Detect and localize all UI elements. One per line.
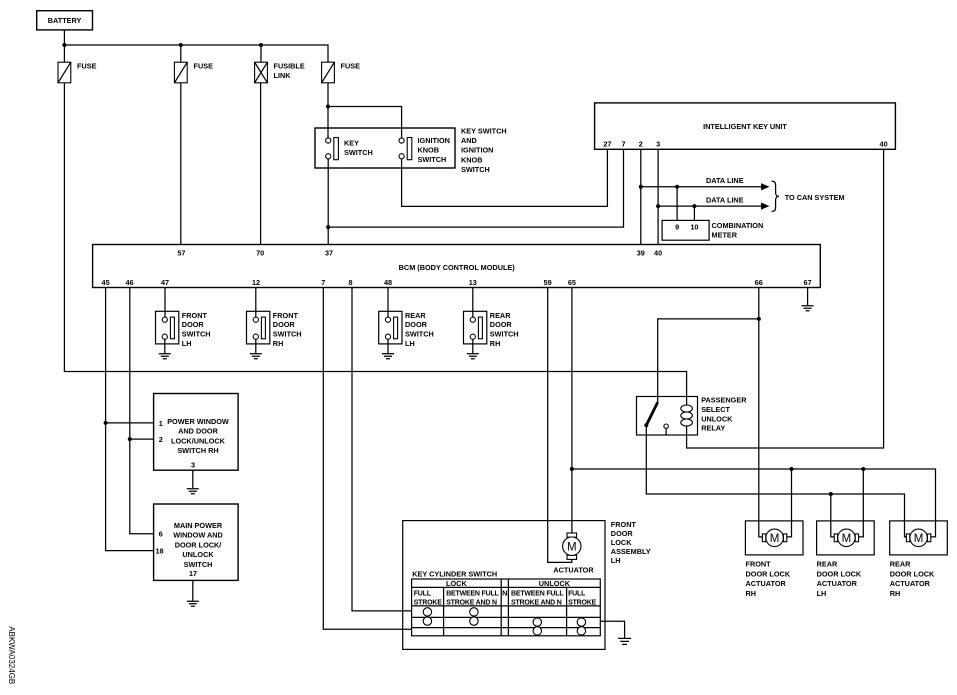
svg-text:POWER WINDOW: POWER WINDOW [167,417,229,426]
wire feed down front RH [787,469,792,537]
svg-text:ACTUATOR: ACTUATOR [817,579,858,588]
svg-text:13: 13 [469,278,477,287]
svg-text:M: M [914,533,924,545]
svg-text:DATA LINE: DATA LINE [706,196,744,205]
svg-text:KNOB: KNOB [461,155,483,164]
svg-text:PASSENGER: PASSENGER [701,396,747,405]
label front door lock actuator RH [746,560,791,598]
BCM (body control module) U2 [93,245,821,288]
junction bus-fuse1 [62,43,66,47]
svg-text:STROKE AND N: STROKE AND N [511,599,562,606]
svg-text:DOOR LOCK/: DOOR LOCK/ [175,540,222,549]
svg-text:FUSE: FUSE [194,62,214,71]
svg-text:UNLOCK: UNLOCK [701,414,733,423]
wire BCM 59 to actuator [548,288,572,563]
ground rear door switch RH [467,354,479,359]
junction meter10-dataline2 [692,204,696,208]
rear door switch LH [379,311,434,348]
junction pin3-dataline2 [656,204,660,208]
label rear door lock actuator RH [890,560,935,598]
svg-text:RH: RH [273,339,284,348]
junction bus-fusible-link [259,43,263,47]
svg-text:66: 66 [755,278,763,287]
fuse F2 [174,62,213,83]
svg-text:DATA LINE: DATA LINE [706,176,744,185]
svg-text:3: 3 [656,140,660,149]
wire meter pin 10 [693,206,695,220]
svg-text:DOOR LOCK: DOOR LOCK [890,569,935,578]
wire BCM 66 to relay and front actuator [759,288,763,537]
svg-text:MAIN POWER: MAIN POWER [174,521,223,530]
wire branch rear LH [831,494,834,537]
fuse F4 [322,62,360,83]
svg-text:RELAY: RELAY [701,424,725,433]
svg-text:STROKE AND N: STROKE AND N [446,599,497,606]
wire ignition knob to IKU pin 27 [402,149,608,206]
passenger select unlock relay [637,397,698,436]
wire branch to pin2 [130,438,154,440]
wire branch to relay [658,319,759,402]
wire IKU pin 40 to relay coil [687,149,884,448]
svg-text:70: 70 [256,249,264,258]
svg-text:LH: LH [182,339,192,348]
svg-text:SWITCH: SWITCH [344,148,373,157]
contact unlock between full stroke [533,618,541,626]
svg-text:40: 40 [654,249,662,258]
svg-text:REAR: REAR [405,311,426,320]
svg-text:REAR: REAR [817,560,838,569]
wire BCM 13 to rear door switch RH [472,288,474,318]
wire BCM 8 to key cylinder switch [352,288,412,611]
wire BCM 45 to switches [106,288,154,551]
svg-text:39: 39 [637,249,645,258]
relay switch arm [646,402,657,425]
wire branch to pin1 [106,422,154,424]
key switch box [315,128,455,168]
label front door lock assembly LH [611,520,651,565]
wire pin3 to ground [192,470,194,488]
svg-text:59: 59 [544,278,552,287]
svg-text:UNLOCK: UNLOCK [539,579,571,588]
svg-text:KEY SWITCH: KEY SWITCH [461,127,507,136]
wire bus to fusible link [260,45,262,62]
svg-text:48: 48 [384,278,392,287]
svg-text:REAR: REAR [490,311,511,320]
data line 2 [658,205,762,207]
svg-text:18: 18 [155,547,163,556]
svg-text:LOCK/UNLOCK: LOCK/UNLOCK [171,436,226,445]
svg-text:ACTUATOR: ACTUATOR [890,579,931,588]
junction meter9-dataline1 [675,185,679,189]
key cylinder switch table [412,579,601,636]
svg-text:2: 2 [639,140,643,149]
ground front door switch LH [159,354,171,359]
svg-text:DOOR: DOOR [182,320,205,329]
svg-text:SWITCH RH: SWITCH RH [177,446,218,455]
key switch S1 [326,138,373,160]
svg-text:65: 65 [568,278,576,287]
wire BCM 48 to rear door switch LH [387,288,389,318]
svg-text:3: 3 [191,460,195,469]
junction pin45 branch [104,421,108,425]
svg-text:SWITCH: SWITCH [184,560,213,569]
svg-text:RH: RH [890,589,901,598]
svg-text:12: 12 [252,278,260,287]
svg-text:DOOR LOCK: DOOR LOCK [817,569,862,578]
svg-text:LOCK: LOCK [446,579,467,588]
svg-text:SWITCH: SWITCH [182,330,211,339]
wire fuse4 to key switch [327,83,329,138]
svg-text:40: 40 [880,140,888,149]
wire BCM 65 to actuator [571,288,573,534]
svg-text:ACTUATOR: ACTUATOR [746,579,787,588]
svg-text:STROKE: STROKE [568,599,597,606]
svg-text:SWITCH: SWITCH [418,155,447,164]
svg-text:67: 67 [804,278,812,287]
wire IKU pin 2 to BCM pin 39 [640,149,642,244]
ground key cylinder switch [618,638,631,644]
wire pin17 to ground [192,580,194,600]
wire fuse1 to node, long feed to relay coil [64,83,686,397]
svg-text:DOOR: DOOR [490,320,513,329]
svg-text:M: M [842,533,852,545]
svg-text:FRONT: FRONT [182,311,208,320]
contact lock between full stroke [470,608,478,616]
wire BCM 12 to front door switch RH [255,288,257,318]
svg-text:2: 2 [159,435,163,444]
svg-text:6: 6 [159,530,163,539]
wire BCM 7 to key cylinder switch [323,288,411,630]
rear door lock actuator LH box [817,521,875,555]
svg-text:ACTUATOR: ACTUATOR [553,566,594,575]
svg-text:LH: LH [817,589,827,598]
wire pin65 feed to actuators [572,469,936,537]
svg-text:ABKWA0324GB: ABKWA0324GB [7,626,16,684]
svg-text:RH: RH [746,589,757,598]
contact unlock full stroke [577,618,585,626]
junction pin66 relay branch [757,317,761,321]
wire switch RH to ground [255,339,257,353]
ground power window switch RH [187,489,199,494]
svg-text:BATTERY: BATTERY [48,16,82,25]
svg-text:LH: LH [611,556,621,565]
combination meter [662,220,709,240]
fuse F1 [58,62,97,83]
svg-text:KNOB: KNOB [418,146,440,155]
wire switch LH to ground [164,339,166,353]
svg-text:SWITCH: SWITCH [490,330,519,339]
wire relay output to rear actuators [646,425,906,537]
wire to IKU pin 7 [328,149,623,227]
wire key cylinder to ground [600,621,624,638]
wire key switch to BCM pin 37 [327,159,329,245]
wire battery to bus [63,30,65,45]
wire bus to fuse1 [63,45,65,62]
wire rear switch LH to ground [387,339,389,353]
label key switch and ignition knob switch [461,127,507,174]
svg-text:ASSEMBLY: ASSEMBLY [611,547,651,556]
svg-text:DOOR LOCK: DOOR LOCK [746,569,791,578]
battery [37,11,93,30]
svg-text:INTELLIGENT KEY UNIT: INTELLIGENT KEY UNIT [703,122,787,131]
svg-text:57: 57 [177,249,185,258]
svg-text:BCM (BODY CONTROL MODULE): BCM (BODY CONTROL MODULE) [399,263,516,272]
svg-text:RH: RH [490,339,501,348]
svg-text:KEY: KEY [344,139,359,148]
svg-text:WINDOW AND: WINDOW AND [173,531,223,540]
junction bus-fuse2 [179,43,183,47]
label passenger select unlock relay [701,396,747,433]
junction feed rear LH [861,467,865,471]
junction key switch / IKU pin 7 [326,225,330,229]
ignition knob switch S2 [399,136,450,164]
brace to CAN [772,181,779,211]
rear door switch RH [464,311,519,348]
wire branch to ignition knob switch [328,107,402,138]
wire bus B+ [64,45,328,62]
svg-text:COMBINATION: COMBINATION [712,221,764,230]
contact lock full stroke [423,608,431,616]
front door switch LH [156,311,211,348]
svg-text:10: 10 [690,223,698,232]
svg-text:STROKE: STROKE [414,599,443,606]
wire IKU pin 3 to BCM pin 40 [657,149,659,244]
svg-text:9: 9 [675,223,679,232]
svg-text:M: M [770,533,780,545]
front door switch RH [247,311,302,348]
intelligent key unit [595,103,896,149]
svg-text:FUSE: FUSE [341,62,361,71]
svg-text:M: M [567,541,577,553]
svg-text:8: 8 [348,278,352,287]
junction rear LH branch [829,492,833,496]
wire feed down rear LH [859,469,864,537]
svg-text:1: 1 [159,419,163,428]
junction pin46 branch [128,437,132,441]
svg-text:46: 46 [125,278,133,287]
junction fuse4 branch [326,105,330,109]
wire meter pin 9 [676,187,678,221]
svg-text:TO CAN SYSTEM: TO CAN SYSTEM [785,193,845,202]
svg-text:LINK: LINK [274,71,292,80]
wire BCM 47 to front door switch LH [164,288,166,318]
svg-text:IGNITION: IGNITION [461,146,493,155]
svg-text:SWITCH: SWITCH [405,330,434,339]
ground main power window switch [187,601,199,606]
svg-text:DOOR: DOOR [611,529,634,538]
svg-text:METER: METER [712,231,738,240]
relay NC terminal [664,424,668,428]
svg-text:47: 47 [161,278,169,287]
svg-text:FULL: FULL [414,590,432,597]
wire BCM 46 to switches [130,288,154,534]
junction feed front RH [790,467,794,471]
svg-text:FRONT: FRONT [611,520,637,529]
junction pin2-dataline1 [639,185,643,189]
svg-text:BETWEEN FULL: BETWEEN FULL [511,590,564,597]
actuator motor M1 [553,533,594,575]
data line 1 [641,186,762,188]
svg-text:KEY CYLINDER SWITCH: KEY CYLINDER SWITCH [412,569,497,578]
svg-text:N: N [502,589,507,598]
svg-text:FULL: FULL [568,590,586,597]
main power window and door lock/unlock switch [154,504,239,580]
svg-text:BETWEEN FULL: BETWEEN FULL [446,590,499,597]
wire bus to fuse2 [180,45,182,62]
ground front door switch RH [250,354,262,359]
svg-text:FRONT: FRONT [273,311,299,320]
fusible link FL [255,62,305,83]
svg-text:AND: AND [461,136,477,145]
svg-text:LH: LH [405,339,415,348]
rear door lock actuator RH box [890,521,948,555]
svg-text:27: 27 [603,140,611,149]
svg-text:AND DOOR: AND DOOR [178,427,218,436]
front door lock assembly LH box [403,521,605,650]
front door lock actuator RH box [745,521,803,555]
svg-text:IGNITION: IGNITION [418,136,450,145]
svg-text:17: 17 [189,569,197,578]
svg-text:FUSE: FUSE [77,62,97,71]
wire fusible link to BCM pin 70 [260,83,262,245]
svg-text:LOCK: LOCK [611,538,632,547]
svg-text:FUSIBLE: FUSIBLE [274,62,305,71]
junction relay arm [644,423,648,427]
label rear door lock actuator LH [817,560,862,598]
svg-text:7: 7 [621,140,625,149]
ground BCM 67 [802,306,814,311]
svg-text:7: 7 [321,278,325,287]
wire BCM 67 to ground [807,288,809,306]
svg-text:REAR: REAR [890,560,911,569]
svg-text:UNLOCK: UNLOCK [182,550,214,559]
svg-text:SWITCH: SWITCH [461,165,490,174]
svg-text:SELECT: SELECT [701,405,730,414]
relay coil [681,397,693,436]
wire rear switch RH to ground [472,339,474,353]
svg-text:45: 45 [102,278,110,287]
wire fuse2 to BCM pin 57 [180,83,182,245]
svg-text:DOOR: DOOR [273,320,296,329]
svg-text:SWITCH: SWITCH [273,330,302,339]
svg-text:DOOR: DOOR [405,320,428,329]
power window and door lock/unlock switch RH [154,394,239,471]
junction pin65 feed [570,467,574,471]
svg-text:FRONT: FRONT [746,560,772,569]
svg-text:37: 37 [325,249,333,258]
ground rear door switch LH [382,354,394,359]
